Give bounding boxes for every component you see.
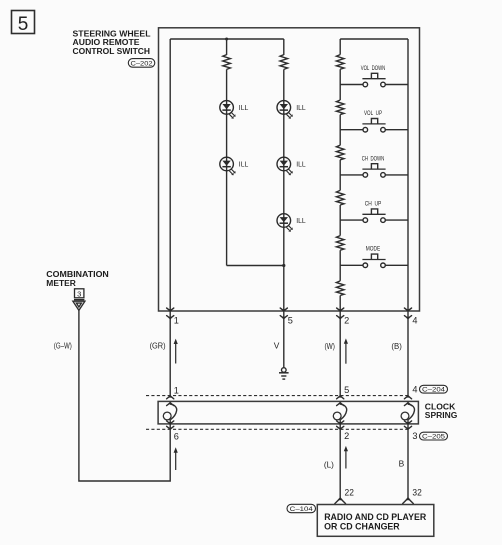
pin 3 of combination meter <box>74 289 84 300</box>
svg-text:4: 4 <box>412 384 417 394</box>
connector label C-204 <box>420 385 448 393</box>
wire ladder right rail <box>407 39 409 311</box>
resistor ladder 6 <box>336 281 344 296</box>
pin 2 of C-202 <box>337 308 350 326</box>
svg-text:B: B <box>399 459 405 469</box>
svg-text:2: 2 <box>344 431 349 441</box>
pin 4 of C-204 <box>404 384 417 398</box>
coil clock spring right <box>401 402 414 429</box>
wire combination meter (G-W) <box>79 310 170 481</box>
svg-text:C–204: C–204 <box>422 387 445 394</box>
label (W) <box>325 341 336 351</box>
label 32 <box>412 487 421 497</box>
resistor col A <box>223 55 231 70</box>
switch MODE <box>340 254 408 268</box>
svg-text:ILL: ILL <box>296 218 306 225</box>
label CH DOWN <box>362 155 385 162</box>
resistor ladder 5 <box>336 236 344 251</box>
svg-text:5: 5 <box>344 385 349 395</box>
box RADIO AND CD PLAYER OR CD CHANGER <box>317 505 434 537</box>
wire clock spring pin2 to radio (L) <box>339 429 341 498</box>
label STEERING WHEEL AUDIO REMOTE CONTROL SWITCH <box>73 28 151 55</box>
coil clock spring left <box>163 402 176 429</box>
svg-text:C–202: C–202 <box>131 61 153 68</box>
clock spring connector C-205 dashed line <box>146 428 409 430</box>
LED ILL B1 <box>277 101 293 119</box>
resistor ladder 4 <box>336 190 344 205</box>
pin 3 of C-205 <box>404 426 417 441</box>
wire top rail of illumination group <box>170 38 284 40</box>
clock spring box <box>158 401 418 424</box>
label B <box>399 459 405 469</box>
label COMBINATION METER <box>46 269 109 288</box>
connector triangle combination meter <box>73 301 85 310</box>
label (L) <box>324 459 334 469</box>
svg-text:3: 3 <box>412 431 417 441</box>
svg-text:VOL DOWN: VOL DOWN <box>361 65 386 72</box>
svg-text:C–104: C–104 <box>290 506 313 513</box>
label (B) <box>391 341 402 351</box>
svg-text:ILL: ILL <box>296 162 306 169</box>
label VOL UP <box>364 110 382 117</box>
pin 1 of C-202 <box>167 308 179 326</box>
switch VOL UP <box>340 119 408 133</box>
connector label C-205 <box>420 432 448 440</box>
svg-text:6: 6 <box>174 431 179 441</box>
LED ILL B3 <box>277 214 293 232</box>
arrow W up <box>344 338 348 363</box>
label MODE <box>366 246 381 253</box>
resistor ladder 2 <box>336 100 344 115</box>
arrow L up <box>344 446 348 469</box>
label V <box>274 341 280 351</box>
svg-text:ILL: ILL <box>239 105 249 112</box>
svg-text:1: 1 <box>174 386 179 396</box>
svg-text:V: V <box>274 341 280 351</box>
label ILL A1 <box>239 105 249 112</box>
wire ladder left rail segments <box>339 39 341 311</box>
label (G-W) <box>54 341 72 351</box>
label 22 <box>345 487 354 497</box>
switch CH DOWN <box>340 164 408 178</box>
label ILL A2 <box>239 162 249 169</box>
wire bottom rail illumination <box>227 265 284 267</box>
label (GR) <box>150 341 166 351</box>
switch assembly outer box C-202 <box>159 28 420 311</box>
clock spring connector C-204 dashed line <box>146 395 409 397</box>
resistor ladder 1 <box>336 55 344 70</box>
svg-text:5: 5 <box>288 316 293 326</box>
svg-text:METER: METER <box>46 278 76 288</box>
svg-text:VOL UP: VOL UP <box>364 110 382 117</box>
label CH UP <box>365 201 382 208</box>
wire pin4 to clock spring (B) <box>407 311 409 396</box>
pin 4 of C-202 <box>404 308 417 326</box>
pin 22 chevron into radio <box>335 497 346 503</box>
svg-text:22: 22 <box>345 487 354 497</box>
LED ILL B2 <box>277 157 293 175</box>
ground <box>279 368 289 379</box>
svg-text:(G–W): (G–W) <box>54 341 72 351</box>
figure number badge 5 <box>12 11 35 36</box>
pin 32 chevron into radio <box>403 497 414 503</box>
wire clock spring pin3 to radio B <box>407 429 409 498</box>
connector label C-202 <box>128 59 155 68</box>
wire left side to pin 1 <box>169 39 171 311</box>
pin 6 of C-205 <box>167 426 179 441</box>
arrow GW up <box>174 447 178 470</box>
wire pin2 to clock spring (W) <box>339 311 341 396</box>
wire pin5 to ground V <box>283 311 285 368</box>
svg-text:CH UP: CH UP <box>365 201 382 208</box>
label ILL B3 <box>296 218 306 225</box>
svg-text:ILL: ILL <box>239 162 249 169</box>
wire column A middle <box>226 69 228 265</box>
node T junction col A top <box>225 38 228 41</box>
svg-text:(GR): (GR) <box>150 341 166 351</box>
svg-text:4: 4 <box>412 316 417 326</box>
label ILL B2 <box>296 162 306 169</box>
LED ILL A1 <box>220 101 236 119</box>
pin 5 of C-204 <box>337 385 350 399</box>
pin 5 of C-202 <box>280 308 293 326</box>
svg-text:CH DOWN: CH DOWN <box>362 155 385 162</box>
svg-text:OR CD CHANGER: OR CD CHANGER <box>324 522 400 532</box>
node junction col B bottom rail <box>282 264 285 267</box>
label VOL DOWN <box>361 65 386 72</box>
switch CH UP <box>340 209 408 223</box>
LED ILL A2 <box>220 157 236 175</box>
svg-text:2: 2 <box>344 316 349 326</box>
svg-text:(B): (B) <box>391 341 402 351</box>
wire ladder top rail <box>340 38 408 40</box>
svg-text:(W): (W) <box>325 341 336 351</box>
svg-text:C–205: C–205 <box>422 434 445 441</box>
pin 2 of C-205 <box>337 426 350 441</box>
svg-text:MODE: MODE <box>366 246 381 253</box>
resistor col B <box>280 55 288 70</box>
connector label C-104 <box>287 504 316 513</box>
arrow GR up <box>174 339 178 364</box>
coil clock spring middle <box>333 402 346 429</box>
svg-text:CONTROL SWITCH: CONTROL SWITCH <box>73 46 151 56</box>
svg-text:32: 32 <box>412 487 421 497</box>
svg-text:(L): (L) <box>324 459 334 469</box>
resistor ladder 3 <box>336 145 344 160</box>
svg-text:3: 3 <box>77 290 81 299</box>
svg-text:SPRING: SPRING <box>425 410 458 420</box>
switch VOL DOWN <box>340 73 408 86</box>
label ILL B1 <box>296 105 306 112</box>
svg-text:ILL: ILL <box>296 105 306 112</box>
wire column B to pin 5 <box>283 39 285 311</box>
svg-text:1: 1 <box>174 316 179 326</box>
label CLOCK SPRING <box>425 402 458 421</box>
pin 1 of C-204 <box>167 386 179 399</box>
wire pin1 to clock spring (GR) <box>169 311 171 396</box>
svg-text:5: 5 <box>18 14 29 35</box>
wire column A upper <box>226 39 228 55</box>
